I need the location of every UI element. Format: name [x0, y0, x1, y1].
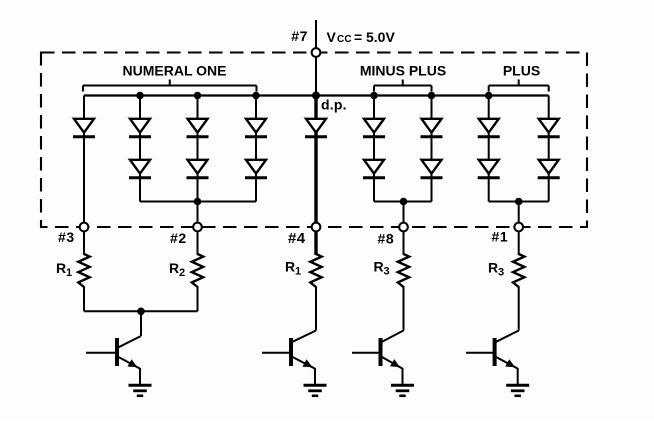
svg-text:#3: #3: [58, 229, 75, 245]
svg-text:CC: CC: [337, 34, 352, 45]
svg-text:MINUS PLUS: MINUS PLUS: [360, 63, 446, 79]
svg-text:1: 1: [66, 267, 72, 279]
svg-text:PLUS: PLUS: [503, 63, 540, 79]
svg-text:#2: #2: [170, 230, 187, 246]
svg-text:#7: #7: [291, 28, 308, 44]
svg-text:R: R: [169, 260, 179, 276]
svg-text:2: 2: [179, 267, 185, 279]
svg-text:#8: #8: [378, 231, 395, 247]
svg-text:#1: #1: [492, 229, 509, 245]
svg-text:R: R: [488, 260, 498, 276]
svg-text:5.0V: 5.0V: [366, 29, 395, 45]
svg-text:R: R: [374, 259, 384, 275]
svg-text:3: 3: [498, 267, 504, 279]
svg-text:R: R: [56, 260, 66, 276]
svg-text:R: R: [285, 259, 295, 275]
svg-text:V: V: [327, 29, 337, 45]
svg-text:3: 3: [384, 266, 390, 278]
svg-text:d.p.: d.p.: [321, 97, 347, 113]
svg-text:=: =: [354, 29, 362, 45]
svg-text:1: 1: [295, 266, 301, 278]
svg-text:NUMERAL ONE: NUMERAL ONE: [123, 63, 227, 79]
svg-text:#4: #4: [288, 230, 306, 247]
